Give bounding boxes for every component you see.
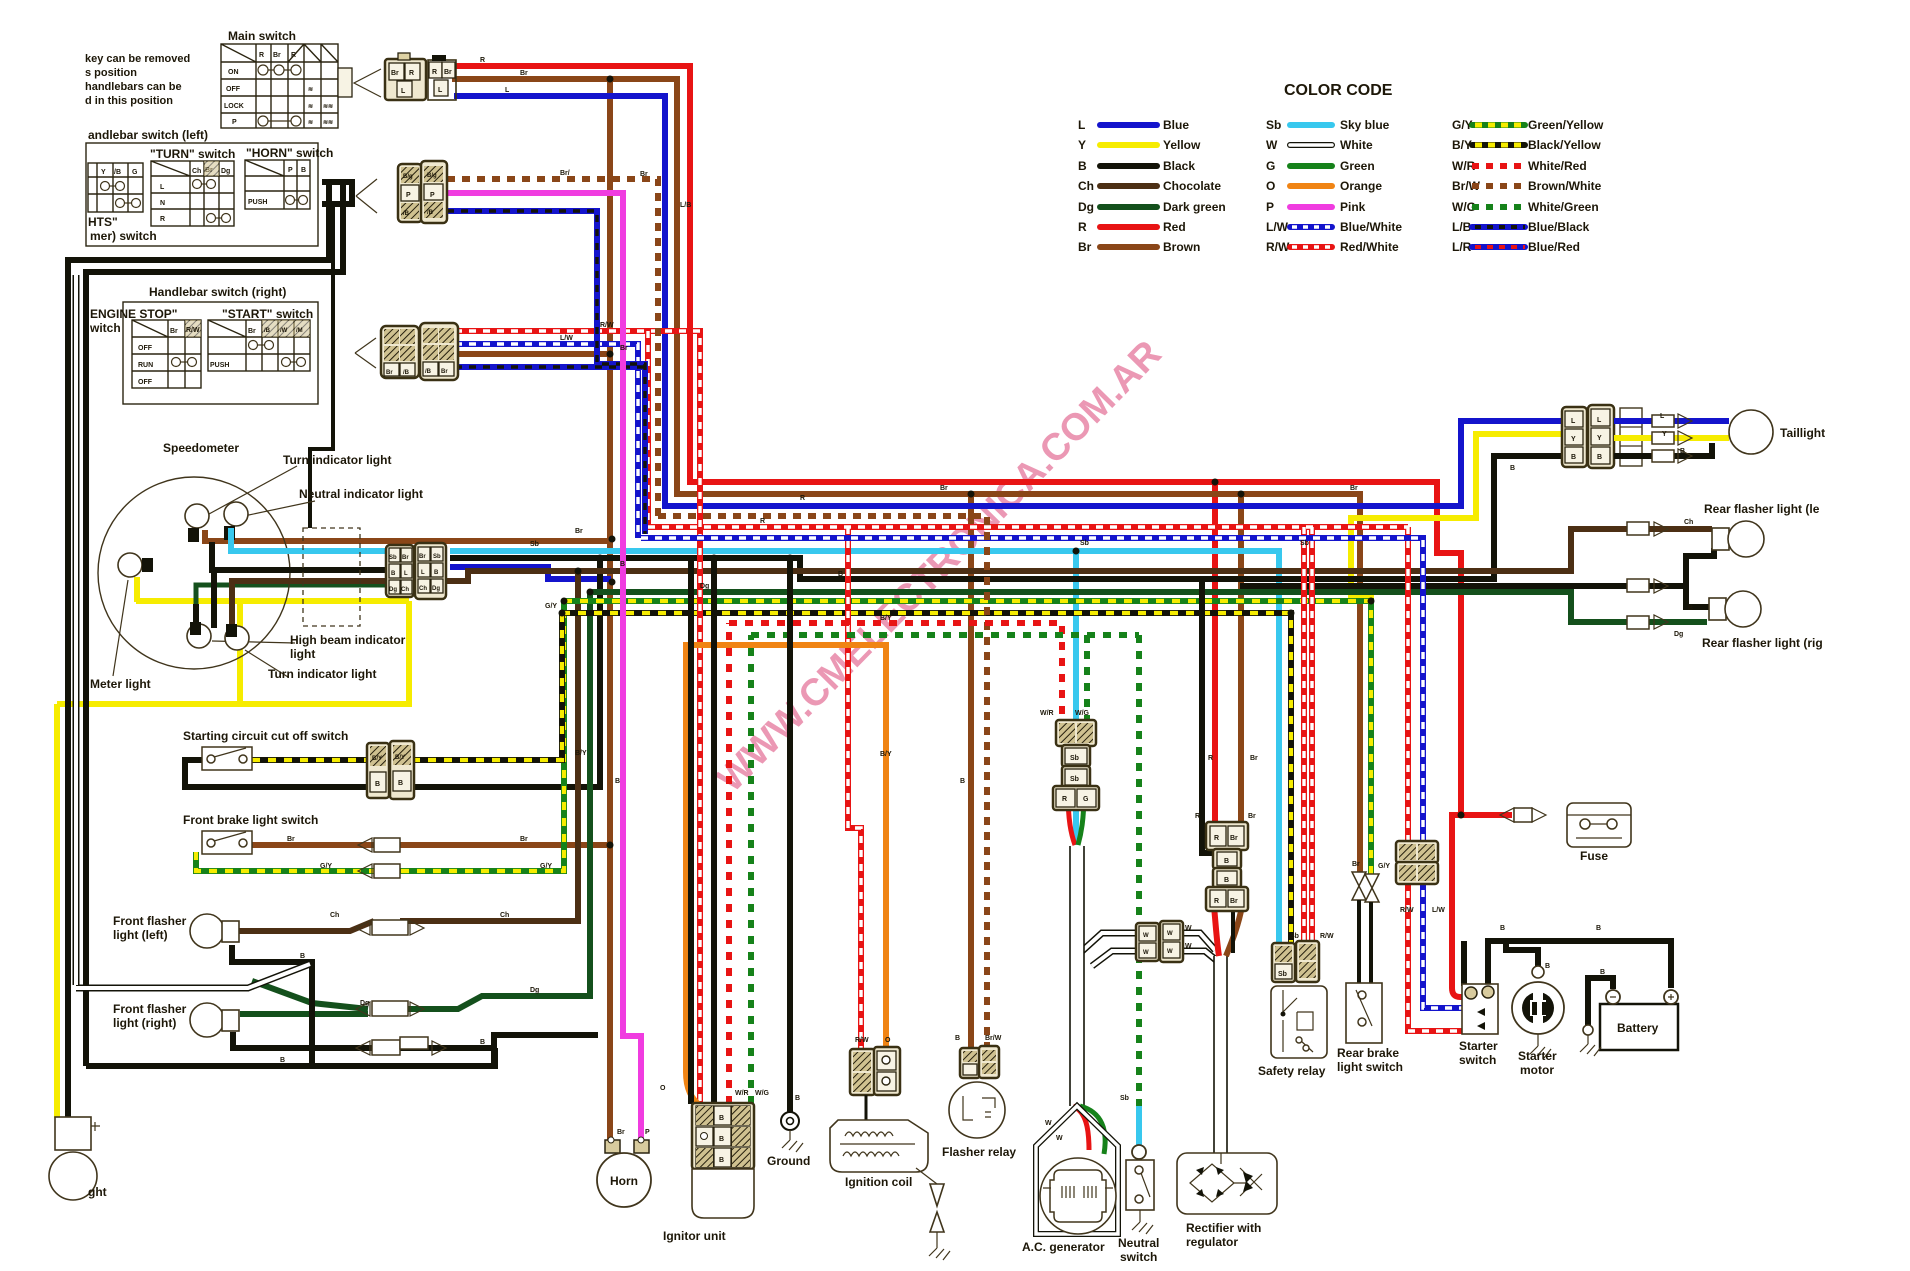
engine stop table	[132, 320, 201, 388]
svg-text:Ch: Ch	[192, 168, 201, 175]
svg-text:L/W: L/W	[560, 335, 573, 342]
wire: speedometer feed black stub	[310, 204, 333, 528]
wire: brown from handlebar right switch	[455, 351, 610, 357]
svg-text:B: B	[960, 778, 965, 785]
ground	[767, 1112, 810, 1168]
wire: white wires from generator to connector	[1081, 933, 1139, 966]
ignition coil connector	[850, 1047, 900, 1095]
svg-text:mer) switch: mer) switch	[90, 229, 157, 243]
wire: white wires from connector to rectifier conduit	[1181, 933, 1216, 960]
svg-text:B/g: B/g	[427, 173, 437, 179]
svg-text:B: B	[391, 571, 396, 577]
svg-text:L: L	[404, 571, 408, 577]
svg-text:Sb: Sb	[1120, 1095, 1129, 1102]
svg-text:L: L	[401, 88, 406, 95]
svg-text:P: P	[406, 192, 411, 199]
svg-text:W: W	[1143, 933, 1149, 939]
svg-text:Rectifier with: Rectifier with	[1186, 1221, 1261, 1235]
speedometer internal wires	[231, 528, 392, 551]
svg-text:B/Y: B/Y	[880, 615, 892, 622]
dashed service box	[303, 528, 360, 626]
svg-text:B: B	[1597, 454, 1602, 461]
wire: brown from front brake light switch	[252, 842, 610, 848]
svg-text:Main switch: Main switch	[228, 29, 296, 43]
svg-text:Br/: Br/	[560, 170, 570, 177]
svg-text:Br: Br	[248, 328, 256, 335]
svg-text:Br: Br	[1230, 898, 1238, 905]
svg-text:Front brake light switch: Front brake light switch	[183, 813, 318, 827]
svg-text:P: P	[288, 167, 293, 174]
wire: left harness black wires to headlight	[68, 204, 598, 1118]
svg-text:Ch: Ch	[419, 586, 427, 592]
wire: green/yellow from front brake switch to rear brake switch	[196, 601, 1371, 874]
svg-text:Sb: Sb	[1266, 118, 1281, 132]
svg-text:B/Y: B/Y	[395, 755, 405, 761]
svg-text:OFF: OFF	[138, 379, 153, 386]
svg-text:Yellow: Yellow	[1163, 138, 1201, 152]
svg-text:B: B	[1510, 465, 1515, 472]
svg-text:handlebars can be: handlebars can be	[85, 81, 182, 93]
svg-text:Turn indicator light: Turn indicator light	[268, 667, 376, 681]
svg-text:Br/W: Br/W	[985, 1035, 1002, 1042]
svg-text:Br: Br	[575, 528, 583, 535]
wire: blue/white from start switch to starter switch	[455, 344, 1464, 1008]
svg-text:L/W: L/W	[1266, 220, 1289, 234]
wire: dark green speedometer internal	[196, 585, 392, 624]
svg-text:witch: witch	[89, 321, 121, 335]
svg-text:andlebar switch (left): andlebar switch (left)	[88, 128, 208, 142]
inline connectors on black	[356, 1041, 446, 1055]
svg-text:Dg: Dg	[1674, 631, 1683, 638]
wire: red and brown and black into rectifier conduit	[1214, 906, 1219, 956]
svg-text:B: B	[1545, 963, 1550, 970]
svg-text:Y: Y	[101, 169, 106, 176]
svg-text:L: L	[1597, 417, 1602, 424]
svg-text:/B: /B	[403, 211, 410, 217]
svg-text:B: B	[719, 1157, 724, 1164]
svg-text:Ch: Ch	[1078, 179, 1094, 193]
svg-text:light (right): light (right)	[113, 1016, 176, 1030]
svg-text:L: L	[1078, 118, 1085, 132]
svg-text:P: P	[430, 192, 435, 199]
svg-text:L/W: L/W	[1432, 907, 1445, 914]
svg-text:Pink: Pink	[1340, 200, 1366, 214]
svg-text:R: R	[1214, 898, 1219, 905]
svg-text:Br: Br	[273, 52, 281, 59]
svg-text:Horn: Horn	[610, 1174, 638, 1188]
wire: yellow meter light loop to headlight	[57, 577, 409, 1118]
svg-text:W: W	[1266, 138, 1278, 152]
svg-text:W: W	[1167, 931, 1173, 937]
wire: black/yellow from starting cut off switch to safety relay	[252, 613, 1291, 948]
svg-text:light (left): light (left)	[113, 928, 168, 942]
wire: red main feed from main switch to fuse area	[455, 66, 1512, 997]
spark plug arrows	[916, 1168, 937, 1184]
wire: white conduit to rectifier	[1214, 956, 1227, 1153]
svg-text:B: B	[838, 571, 843, 578]
svg-text:LOCK: LOCK	[224, 103, 244, 110]
svg-text:B/Y: B/Y	[372, 756, 382, 762]
headlight	[49, 1117, 107, 1200]
wire: generator red green leads	[1068, 792, 1075, 845]
wire: black drops to ignitor unit	[691, 558, 714, 1104]
svg-text:L: L	[1660, 413, 1665, 420]
svg-text:Br: Br	[1078, 240, 1092, 254]
svg-text:R/W: R/W	[186, 327, 200, 334]
svg-text:Ch: Ch	[401, 587, 409, 593]
svg-text:R/W: R/W	[855, 1037, 869, 1044]
A.C. generator	[1022, 1106, 1118, 1254]
svg-text:R: R	[1078, 220, 1087, 234]
svg-text:B: B	[1688, 605, 1693, 612]
wire: orange loop to ignitor and ignition coil	[686, 645, 886, 1106]
svg-text:Dg: Dg	[432, 586, 440, 592]
svg-text:Starter: Starter	[1518, 1049, 1557, 1063]
svg-text:Sb: Sb	[1290, 933, 1299, 940]
svg-text:Sb: Sb	[1070, 776, 1079, 783]
svg-text:/W: /W	[280, 328, 288, 334]
svg-text:OFF: OFF	[138, 345, 153, 352]
svg-text:B: B	[1600, 969, 1605, 976]
wire: brown branch to horn	[607, 79, 613, 1144]
svg-text:B: B	[719, 1115, 724, 1122]
svg-text:"HORN" switch: "HORN" switch	[246, 146, 333, 160]
svg-text:G/Y: G/Y	[320, 863, 332, 870]
wire: dark green bus to rear flasher right	[588, 592, 1707, 622]
svg-text:Brown: Brown	[1163, 240, 1200, 254]
svg-text:B: B	[301, 167, 306, 174]
svg-text:Sb: Sb	[1080, 540, 1089, 547]
svg-text:Y: Y	[1662, 431, 1667, 438]
svg-text:s position: s position	[85, 67, 137, 79]
svg-text:key can be removed: key can be removed	[85, 53, 190, 65]
svg-text:motor: motor	[1520, 1063, 1554, 1077]
svg-text:Blue/Black: Blue/Black	[1528, 220, 1590, 234]
svg-text:Br: Br	[287, 836, 295, 843]
turn switch table	[151, 161, 234, 226]
svg-text:R: R	[1214, 835, 1219, 842]
svg-text:"TURN" switch: "TURN" switch	[150, 147, 235, 161]
svg-text:Sb: Sb	[1300, 540, 1309, 547]
svg-text:Br: Br	[444, 69, 452, 76]
wire: black drop to ground	[787, 558, 793, 1112]
svg-text:White/Green: White/Green	[1528, 200, 1599, 214]
svg-text:L: L	[1571, 418, 1576, 425]
small wire labels	[280, 57, 1693, 1142]
wire: red drop to rectifier connector R	[1212, 482, 1218, 830]
svg-text:Br: Br	[391, 70, 399, 77]
svg-text:B: B	[434, 570, 439, 576]
svg-text:R: R	[1208, 755, 1213, 762]
svg-text:Br: Br	[441, 369, 448, 375]
svg-text:Green/Yellow: Green/Yellow	[1528, 118, 1604, 132]
svg-text:Dark green: Dark green	[1163, 200, 1226, 214]
svg-text:Sb: Sb	[1278, 971, 1287, 978]
rear flasher light left	[1627, 502, 1820, 557]
WW connector pair	[1136, 921, 1183, 962]
svg-text:/M: /M	[296, 328, 303, 334]
svg-text:/B: /B	[114, 169, 121, 176]
speedometer connector	[386, 543, 446, 599]
svg-text:Br: Br	[170, 328, 178, 335]
svg-text:W: W	[1185, 925, 1192, 932]
svg-text:L: L	[421, 570, 425, 576]
svg-text:≋≋: ≋≋	[323, 104, 333, 110]
svg-text:Br: Br	[940, 485, 948, 492]
svg-text:R: R	[291, 52, 296, 59]
svg-text:W: W	[1045, 1120, 1052, 1127]
wire: brown main feed from main switch along bus to rear brake switch	[452, 79, 1360, 872]
svg-text:B: B	[1680, 448, 1685, 455]
svg-text:Ch: Ch	[500, 912, 509, 919]
svg-text:switch: switch	[1459, 1053, 1496, 1067]
svg-text:Ch: Ch	[330, 912, 339, 919]
wire: sky blue bus from speedometer to safety relay	[450, 551, 1279, 948]
svg-text:B: B	[620, 561, 625, 568]
svg-text:Brown/White: Brown/White	[1528, 179, 1602, 193]
svg-text:L/B: L/B	[680, 202, 691, 209]
svg-text:R: R	[1062, 796, 1067, 803]
svg-text:L: L	[505, 87, 510, 94]
handlebar right connector	[355, 338, 376, 368]
svg-text:L: L	[438, 87, 443, 94]
svg-text:R: R	[760, 518, 765, 525]
main switch connector	[338, 68, 352, 97]
wire: blue/black from handlebar switches	[447, 211, 645, 534]
svg-text:B: B	[1224, 877, 1229, 884]
ignition coil	[830, 1095, 950, 1260]
neutral switch	[1118, 1145, 1159, 1264]
lights dimmer table fragment	[88, 163, 143, 212]
svg-text:W/G: W/G	[755, 1090, 770, 1097]
svg-text:B/g: B/g	[403, 174, 413, 180]
svg-text:Ignition coil: Ignition coil	[845, 1175, 912, 1189]
rear flasher light right	[1627, 579, 1823, 650]
svg-text:Br: Br	[419, 554, 426, 560]
wire: yellow to taillight	[1351, 434, 1568, 604]
handlebar switch left box	[86, 128, 447, 246]
svg-text:B: B	[375, 781, 380, 788]
svg-text:Br: Br	[620, 345, 628, 352]
svg-text:W/R: W/R	[1040, 710, 1054, 717]
svg-text:Br: Br	[1352, 861, 1360, 868]
start switch table	[208, 320, 310, 371]
svg-text:R: R	[259, 52, 264, 59]
svg-text:P: P	[645, 1129, 650, 1136]
svg-text:Dg: Dg	[1078, 200, 1094, 214]
svg-text:B: B	[795, 1095, 800, 1102]
svg-text:Chocolate: Chocolate	[1163, 179, 1221, 193]
svg-text:Turn indicator light: Turn indicator light	[283, 453, 391, 467]
svg-text:R: R	[160, 216, 165, 223]
inline connector on brown	[358, 838, 372, 852]
pointer lines	[113, 466, 315, 677]
wire: red/white from engine stop switch bus	[455, 331, 1464, 1104]
svg-text:Speedometer: Speedometer	[163, 441, 239, 455]
battery	[1580, 990, 1678, 1056]
svg-text:Black: Black	[1163, 159, 1195, 173]
svg-text:Br: Br	[1230, 835, 1238, 842]
svg-text:Black/Yellow: Black/Yellow	[1528, 138, 1601, 152]
svg-text:PUSH: PUSH	[248, 199, 267, 206]
front flasher light left	[113, 914, 424, 948]
svg-text:Rear flasher light (le: Rear flasher light (le	[1704, 502, 1820, 516]
svg-text:B: B	[280, 1057, 285, 1064]
svg-text:Y: Y	[1571, 436, 1576, 443]
svg-text:B: B	[1224, 858, 1229, 865]
wire: pink from horn switch to horn	[447, 193, 641, 1144]
svg-text:light switch: light switch	[1337, 1060, 1403, 1074]
svg-text:Meter light: Meter light	[90, 677, 151, 691]
svg-text:W/R: W/R	[735, 1090, 749, 1097]
svg-text:R/W: R/W	[1320, 933, 1334, 940]
svg-text:Dg: Dg	[700, 583, 709, 590]
svg-text:Neutral: Neutral	[1118, 1236, 1159, 1250]
svg-text:White: White	[1340, 138, 1373, 152]
svg-text:switch: switch	[1120, 1250, 1157, 1264]
svg-text:W: W	[1185, 943, 1192, 950]
high beam indicator lamp	[187, 624, 211, 648]
svg-text:B: B	[1571, 454, 1576, 461]
wire: blue main feed to taillight	[454, 96, 1568, 506]
svg-text:Ch: Ch	[1684, 519, 1693, 526]
wire: sky blue drop to generator connector	[1073, 551, 1079, 845]
horn switch table	[245, 160, 310, 209]
wire: white/red bus to ignitor and generator	[729, 623, 1062, 1104]
svg-text:B: B	[300, 953, 305, 960]
svg-text:≋: ≋	[308, 104, 313, 110]
svg-text:≋: ≋	[308, 120, 313, 126]
svg-text:Sb: Sb	[389, 555, 397, 561]
svg-text:Blue/White: Blue/White	[1340, 220, 1402, 234]
svg-text:B: B	[398, 780, 403, 787]
svg-text:regulator: regulator	[1186, 1235, 1238, 1249]
svg-text:G: G	[1266, 159, 1275, 173]
generator connector stack	[1053, 720, 1099, 810]
handlebar switch right box	[89, 285, 458, 404]
svg-text:A.C. generator: A.C. generator	[1022, 1240, 1105, 1254]
svg-text:Dg: Dg	[389, 587, 397, 593]
front brake light switch	[183, 813, 400, 878]
svg-text:R/W: R/W	[1266, 240, 1290, 254]
svg-text:Blue: Blue	[1163, 118, 1189, 132]
svg-text:Br: Br	[1350, 485, 1358, 492]
svg-text:light: light	[290, 647, 315, 661]
rear brake light switch	[1337, 872, 1403, 1074]
svg-text:L: L	[160, 184, 165, 191]
turn indicator lamp	[185, 504, 209, 528]
svg-text:Neutral indicator light: Neutral indicator light	[299, 487, 423, 501]
svg-text:B: B	[1500, 925, 1505, 932]
svg-text:P: P	[1266, 200, 1274, 214]
svg-text:Y: Y	[1078, 138, 1086, 152]
svg-text:Y: Y	[1597, 435, 1602, 442]
svg-text:P: P	[232, 119, 237, 126]
cut off switch connector	[367, 743, 389, 798]
svg-text:R: R	[480, 57, 485, 64]
svg-text:Battery: Battery	[1617, 1021, 1659, 1035]
svg-text:"START" switch: "START" switch	[222, 307, 313, 321]
svg-text:Dg: Dg	[221, 168, 230, 175]
svg-text:Br: Br	[402, 555, 409, 561]
svg-text:Green: Green	[1340, 159, 1375, 173]
taillight bulb	[1729, 410, 1773, 454]
svg-text:High beam indicator: High beam indicator	[290, 633, 406, 647]
svg-text:B/Y: B/Y	[575, 750, 587, 757]
svg-text:Handlebar switch (right): Handlebar switch (right)	[149, 285, 286, 299]
svg-text:G/Y: G/Y	[1378, 863, 1390, 870]
svg-text:Br: Br	[640, 171, 648, 178]
svg-text:/B: /B	[427, 210, 434, 216]
rectifier feed connector stack	[1206, 822, 1248, 911]
inline connector on green/yellow	[358, 864, 372, 878]
svg-text:/B: /B	[264, 328, 271, 334]
wire: white conduit to generator	[1070, 846, 1084, 1106]
flasher relay	[942, 1046, 1016, 1159]
svg-text:White/Red: White/Red	[1528, 159, 1587, 173]
wire: starter and battery black cables	[1464, 941, 1671, 988]
svg-text:R: R	[800, 495, 805, 502]
svg-text:≋: ≋	[308, 87, 313, 93]
svg-text:Sb: Sb	[433, 554, 441, 560]
svg-text:Front flasher: Front flasher	[113, 1002, 187, 1016]
svg-text:Dg: Dg	[360, 1000, 369, 1007]
svg-text:G/Y: G/Y	[545, 603, 557, 610]
svg-text:Br: Br	[617, 1129, 625, 1136]
svg-text:N: N	[160, 200, 165, 207]
svg-text:W: W	[1143, 950, 1149, 956]
ignitor unit	[663, 1103, 754, 1243]
rectifier with regulator	[1177, 1153, 1277, 1249]
svg-text:O: O	[885, 1037, 891, 1044]
horn switch black bracket wire	[322, 182, 352, 204]
wire: black bus along speedometer level stepping to taillight	[450, 456, 1568, 579]
svg-text:Starter: Starter	[1459, 1039, 1498, 1053]
wire: brown/white from handlebar left to flasher relay	[447, 179, 987, 1052]
svg-text:R: R	[409, 70, 414, 77]
wire: chocolate from front flasher left	[238, 571, 578, 931]
svg-text:Ignitor unit: Ignitor unit	[663, 1229, 726, 1243]
svg-text:ON: ON	[228, 69, 239, 76]
svg-text:Br: Br	[1250, 755, 1258, 762]
svg-text:d in this position: d in this position	[85, 95, 173, 107]
svg-text:HTS": HTS"	[88, 215, 118, 229]
wire: battery negative to ground	[1588, 978, 1613, 1026]
svg-text:Sky blue: Sky blue	[1340, 118, 1390, 132]
svg-text:Safety relay: Safety relay	[1258, 1064, 1326, 1078]
svg-text:B: B	[480, 1039, 485, 1046]
starter switch	[1459, 984, 1498, 1067]
svg-text:O: O	[660, 1085, 666, 1092]
svg-text:Br: Br	[520, 70, 528, 77]
svg-text:Br: Br	[386, 370, 393, 376]
svg-text:B: B	[1596, 925, 1601, 932]
svg-text:G: G	[132, 169, 138, 176]
svg-text:Br: Br	[1248, 813, 1256, 820]
meter light lamp	[118, 553, 142, 577]
wire: black from starting circuit cut off switch	[185, 556, 600, 787]
svg-text:R/W: R/W	[600, 322, 614, 329]
svg-text:Ground: Ground	[767, 1154, 810, 1168]
front flasher light right	[113, 1001, 446, 1055]
starter motor	[1512, 966, 1564, 1077]
safety relay connector	[1272, 941, 1319, 982]
starting circuit cut off switch	[183, 729, 414, 799]
wire: brown drop to flasher relay	[968, 494, 974, 1052]
svg-text:RUN: RUN	[138, 362, 153, 369]
taillight connector	[1562, 405, 1825, 468]
svg-text:/B: /B	[425, 369, 432, 375]
